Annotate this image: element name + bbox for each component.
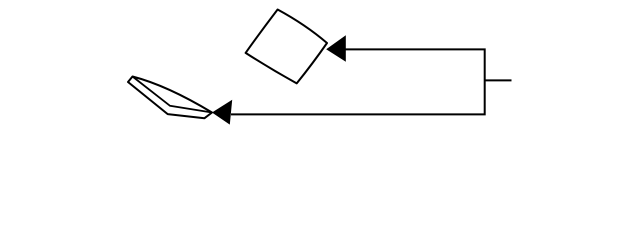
rotated square node (246, 10, 327, 84)
leaf/plank node outline (128, 77, 212, 119)
wire: right stub (485, 79, 512, 81)
arrowhead into square (326, 35, 346, 62)
wire: top horizontal, right vertical, bottom horizontal (231, 49, 485, 114)
leaf fold line (133, 77, 213, 113)
arrowhead into leaf (212, 100, 232, 125)
